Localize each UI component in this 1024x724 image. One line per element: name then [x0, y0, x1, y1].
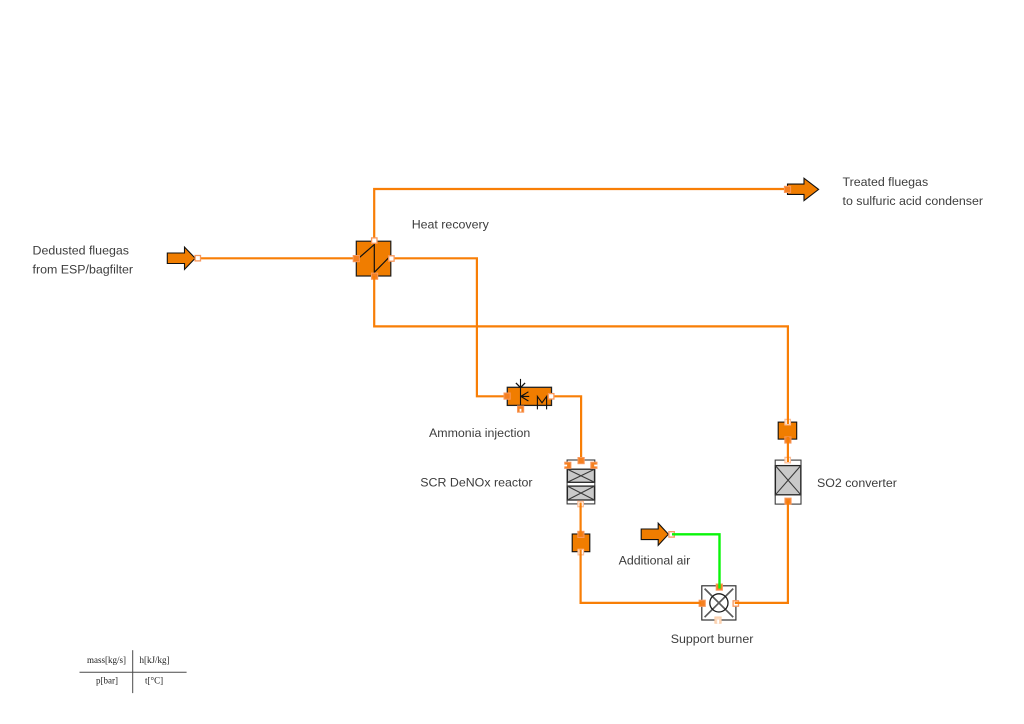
svg-text:h[kJ/kg]: h[kJ/kg]: [140, 655, 170, 665]
support burner: [699, 584, 738, 624]
svg-text:Heat recovery: Heat recovery: [412, 218, 490, 232]
svg-text:t[°C]: t[°C]: [145, 676, 163, 686]
wire: SCR reactor bottom to small box: [579, 503, 581, 537]
small box below SCR reactor: [572, 531, 590, 555]
ammonia injection valve: [504, 379, 554, 412]
label: Dedusted fluegas / from ESP/bagfilter: [33, 244, 134, 277]
svg-text:mass[kg/s]: mass[kg/s]: [87, 655, 126, 665]
svg-text:to sulfuric acid condenser: to sulfuric acid condenser: [843, 194, 984, 208]
heat exchanger HX (Heat recovery): [353, 238, 394, 279]
legend cross lines: [80, 650, 187, 693]
wire: heat exchanger right to ammonia injection left: [394, 258, 505, 396]
source arrow: additional air: [641, 523, 674, 545]
svg-text:from ESP/bagfilter: from ESP/bagfilter: [33, 263, 134, 277]
svg-text:Additional air: Additional air: [619, 554, 691, 568]
wire: heat exchanger top to treated fluegas sink: [374, 189, 786, 241]
SCR DeNOx reactor: [564, 458, 598, 507]
wire: dedusted fluegas source to heat exchanger left: [201, 257, 356, 259]
wire: additional air source to support burner top (green): [672, 534, 720, 588]
svg-text:Treated fluegas: Treated fluegas: [843, 175, 929, 189]
svg-text:p[bar]: p[bar]: [96, 676, 118, 686]
small box above SO2 converter: [778, 419, 797, 443]
label: Treated fluegas / to sulfuric acid condenser: [843, 175, 984, 208]
wire: ammonia injection right to SCR reactor top: [553, 396, 581, 459]
wire: heat exchanger bottom to splitter box above SO2 converter: [374, 276, 788, 424]
source arrow: dedusted fluegas: [167, 247, 200, 269]
SO2 converter: [775, 457, 801, 504]
wire: support burner right to SO2 converter bottom: [735, 501, 788, 603]
wire: small box bottom to support burner left: [581, 550, 701, 603]
wire: box above SO2 converter to SO2 converter top: [787, 437, 789, 462]
svg-text:Ammonia injection: Ammonia injection: [429, 426, 530, 440]
sink arrow: treated fluegas: [784, 178, 818, 200]
svg-text:SO2 converter: SO2 converter: [817, 476, 897, 490]
svg-text:Dedusted fluegas: Dedusted fluegas: [33, 244, 129, 258]
svg-text:SCR DeNOx reactor: SCR DeNOx reactor: [420, 476, 532, 490]
svg-text:Support burner: Support burner: [671, 632, 754, 646]
